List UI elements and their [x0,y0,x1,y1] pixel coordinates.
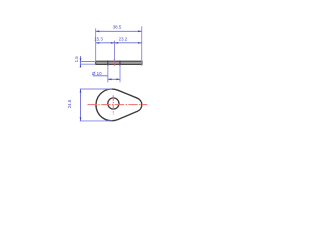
plate bar (side view) [96,61,142,64]
extension line left (diam 10) [107,65,109,83]
svg-text:38.5: 38.5 [113,25,122,30]
dimension line diam 10 [108,78,120,80]
arrow left diam10 (points left) [108,78,112,80]
svg-text:Ø 10: Ø 10 [92,71,102,76]
arrow top 24.5 (points up) [80,89,82,93]
svg-text:15.3: 15.3 [94,36,103,41]
arrow mid-right 23.2 [115,42,119,44]
extension line right (38.5) [141,26,143,66]
svg-text:23.2: 23.2 [119,36,128,41]
leader shelf diam10 [93,75,108,77]
extension line right (diam 10) [119,65,121,83]
dimension line 24.5 (vertical) [80,89,82,121]
arrow bottom 24.5 (points down) [80,117,82,121]
centerline horizontal (red) [88,104,148,106]
centerline vertical (red) [112,95,114,114]
extension line bottom (1.5) [80,63,96,65]
teardrop outline [96,89,142,121]
dimension line 1.5 (vertical) [80,56,82,67]
svg-text:24.5: 24.5 [67,99,72,108]
dimension line 38.5 [96,30,142,32]
arrow upper 1.5 (points down) [80,58,82,61]
arrow left 15.3 [96,42,100,44]
arrow mid-left 15.3 [111,42,115,44]
hole circle [108,98,119,109]
dimension line 15.3 / 23.2 [96,42,142,44]
centerline (top view, red) [113,59,115,66]
extension line bottom (24.5) [80,120,113,122]
arrow right 38.5 [138,30,142,32]
svg-text:1.5: 1.5 [74,56,79,63]
arrow left 38.5 [96,30,100,32]
arrow lower 1.5 (points up) [80,64,82,67]
extension line top (1.5) [80,61,96,63]
extension line center (15.3/23.2 split) [114,41,116,61]
arrow right diam10 (points right) [116,78,120,80]
hole edge line left (top view) [107,61,109,66]
hole edge line right (top view) [119,61,121,66]
extension line left (38.5) [95,28,97,62]
arrow right 23.2 [138,42,142,44]
extension line top (24.5) [80,88,112,90]
